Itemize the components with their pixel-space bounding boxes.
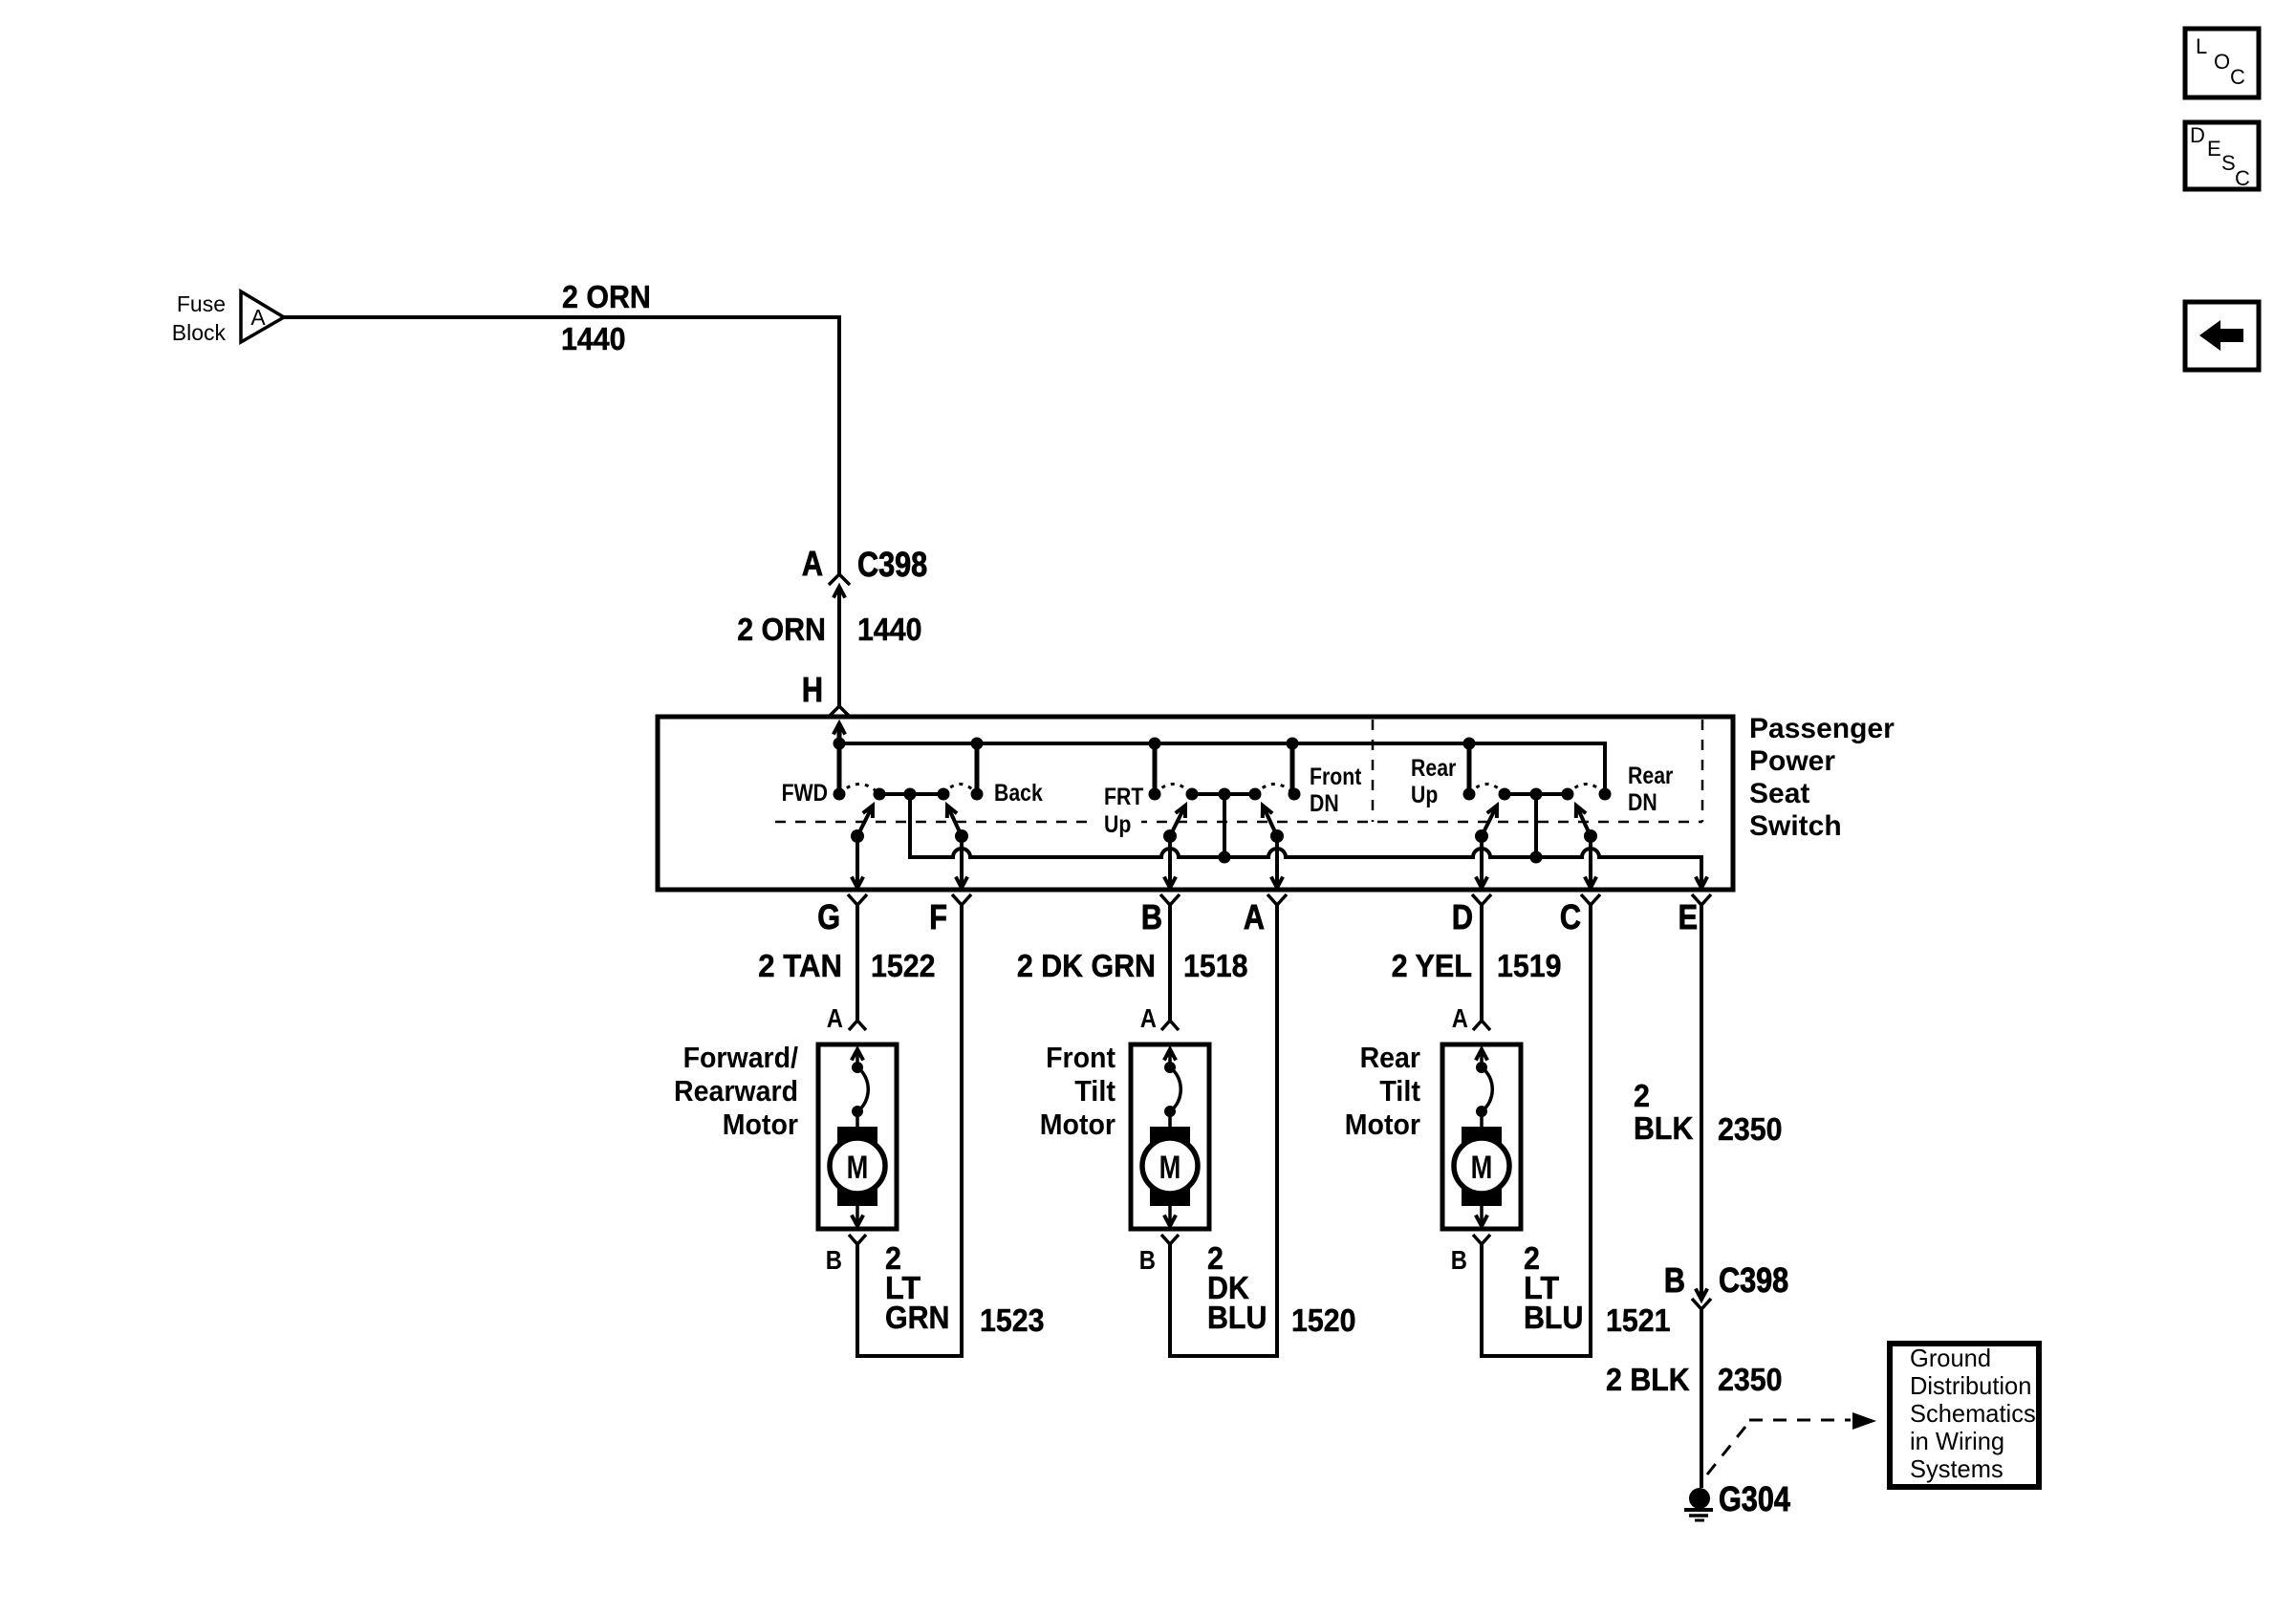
switch2 Front DN contact xyxy=(1289,788,1301,801)
svg-text:Power: Power xyxy=(1749,745,1835,777)
switch1 contacts xyxy=(874,788,886,801)
svg-text:1519: 1519 xyxy=(1497,948,1562,983)
pin A arrow inside box xyxy=(1271,877,1283,889)
wire supply bus xyxy=(839,742,1605,745)
svg-text:BLU: BLU xyxy=(1524,1300,1583,1335)
wire motor3 B down xyxy=(1480,1244,1484,1358)
svg-text:Fuse: Fuse xyxy=(177,291,226,316)
wire H to FWD contact xyxy=(837,723,842,794)
mask for Up label xyxy=(1095,811,1141,836)
pin F arrow inside box xyxy=(956,877,967,889)
switch2 contacts xyxy=(1186,788,1199,801)
svg-text:DN: DN xyxy=(1628,789,1657,816)
switch2 wiper A xyxy=(1270,829,1284,843)
back-arrow legend box xyxy=(2185,302,2259,370)
motor3 box xyxy=(1442,1044,1521,1229)
pin G arrow inside box xyxy=(852,877,863,889)
svg-text:Tilt: Tilt xyxy=(1074,1074,1116,1108)
svg-text:in Wiring: in Wiring xyxy=(1910,1427,2004,1455)
svg-text:G304: G304 xyxy=(1719,1479,1790,1518)
motor1 armature top xyxy=(837,1127,877,1146)
motor2 arrow inside top xyxy=(1164,1049,1176,1061)
motor1 M circle xyxy=(830,1138,885,1194)
motor1 arrow inside top xyxy=(852,1049,863,1061)
wire D to motor3 xyxy=(1480,905,1484,1021)
wire 2 ORN vertical to C398 xyxy=(837,315,841,574)
svg-text:BLK: BLK xyxy=(1634,1110,1694,1146)
wire 2 ORN 1440 horizontal xyxy=(284,315,841,319)
DESC legend box xyxy=(2185,122,2259,189)
motor2 wire to bottom xyxy=(1168,1206,1172,1224)
svg-text:Forward/: Forward/ xyxy=(683,1041,799,1074)
svg-text:2350: 2350 xyxy=(1718,1111,1783,1147)
dashed divider left xyxy=(1372,720,1375,822)
motor1 pin A fork xyxy=(849,1021,866,1030)
wire motor3 return U xyxy=(1480,1354,1592,1358)
motor2 box xyxy=(1131,1044,1209,1229)
svg-text:A: A xyxy=(1140,1003,1157,1033)
svg-text:B: B xyxy=(1451,1245,1467,1275)
motor2 M circle xyxy=(1142,1138,1198,1194)
wire output bus with wire hops xyxy=(910,794,1701,888)
motor1 brush dots and arc xyxy=(852,1062,863,1073)
wire motor2 return U xyxy=(1168,1354,1279,1358)
svg-text:Rear: Rear xyxy=(1360,1041,1420,1074)
svg-text:GRN: GRN xyxy=(885,1300,950,1335)
svg-text:Switch: Switch xyxy=(1749,810,1842,842)
ground G304 symbol xyxy=(1689,1488,1710,1509)
motor1 pin B fork xyxy=(849,1235,866,1244)
svg-text:DN: DN xyxy=(1310,790,1339,817)
svg-text:C398: C398 xyxy=(857,545,927,584)
svg-text:M: M xyxy=(847,1150,869,1186)
switch2 dashed arc Front DN xyxy=(1255,785,1294,795)
pin E arrow inside box xyxy=(1696,877,1707,889)
pin B fork and label xyxy=(1160,894,1180,905)
svg-text:Passenger: Passenger xyxy=(1749,713,1895,744)
motor1 armature bottom xyxy=(837,1188,877,1206)
motor1 wire to bottom xyxy=(856,1206,859,1224)
motor2 pin A fork xyxy=(1161,1021,1179,1030)
switch2 FRT Up contact xyxy=(1149,788,1161,801)
svg-text:B: B xyxy=(1141,897,1162,936)
switch3 dashed arc Rear Up xyxy=(1469,785,1505,795)
junction Front DN stub xyxy=(1287,738,1299,750)
svg-text:C: C xyxy=(1560,897,1581,936)
motor3 arrow inside top xyxy=(1476,1049,1487,1061)
svg-text:A: A xyxy=(1244,897,1265,936)
svg-text:Motor: Motor xyxy=(1345,1108,1420,1141)
svg-text:2 BLK: 2 BLK xyxy=(1606,1362,1690,1397)
motor3 pin B fork xyxy=(1473,1235,1490,1244)
svg-text:2 ORN: 2 ORN xyxy=(737,612,826,647)
motor2 pin B fork xyxy=(1161,1235,1179,1244)
wire wiper B down xyxy=(1168,836,1172,888)
svg-text:Seat: Seat xyxy=(1749,778,1809,809)
switch1 wiper G xyxy=(851,829,864,843)
switch1 dashed arc FWD xyxy=(839,785,879,795)
wire F full xyxy=(960,905,964,1358)
switch2 wiper B xyxy=(1163,829,1177,843)
motor2 wire to armature xyxy=(1168,1111,1172,1129)
wire switch1 common down xyxy=(908,794,912,857)
pin A fork and label xyxy=(1267,894,1287,905)
wire wiper C down xyxy=(1589,836,1592,888)
wire wiper G down xyxy=(856,836,859,888)
svg-text:Systems: Systems xyxy=(1910,1454,2004,1483)
motor3 M circle xyxy=(1454,1138,1509,1194)
pin F fork and label xyxy=(952,894,971,905)
svg-text:Motor: Motor xyxy=(723,1108,798,1141)
motor3 armature top xyxy=(1462,1127,1502,1146)
svg-text:A: A xyxy=(827,1003,843,1033)
switch3 contacts xyxy=(1499,788,1511,801)
switch1 FWD contact xyxy=(834,788,846,801)
motor2 armature top xyxy=(1150,1127,1190,1146)
passenger power seat switch box xyxy=(658,717,1733,890)
svg-text:1440: 1440 xyxy=(857,612,922,647)
svg-text:Up: Up xyxy=(1411,782,1438,808)
junction Back stub xyxy=(971,738,984,750)
switch1 wiper F xyxy=(955,829,968,843)
svg-text:S: S xyxy=(2221,151,2236,175)
wire switch2 common down xyxy=(1223,794,1226,857)
svg-text:B: B xyxy=(826,1245,842,1275)
svg-text:H: H xyxy=(802,670,823,709)
motor3 pin A fork xyxy=(1473,1021,1490,1030)
svg-text:E: E xyxy=(1679,897,1698,936)
wire wiper A down xyxy=(1275,836,1279,888)
svg-text:B: B xyxy=(1664,1260,1685,1300)
motor1 wire to armature xyxy=(856,1111,859,1129)
svg-text:A: A xyxy=(1452,1003,1468,1033)
motor3 wire to bottom xyxy=(1480,1206,1484,1224)
wire motor1 return U xyxy=(856,1354,964,1358)
wire E down xyxy=(1700,905,1703,1300)
svg-text:G: G xyxy=(817,897,840,936)
dashed mechanical link horizontal xyxy=(775,821,1702,824)
svg-text:C: C xyxy=(2230,65,2245,89)
svg-text:1522: 1522 xyxy=(871,948,936,983)
svg-text:Tilt: Tilt xyxy=(1379,1074,1420,1108)
dashed divider right xyxy=(1701,720,1704,822)
connector C398 pin B symbol xyxy=(1696,1289,1707,1301)
svg-text:Back: Back xyxy=(994,780,1043,807)
motor3 brush dots and arc xyxy=(1476,1062,1487,1073)
svg-text:Motor: Motor xyxy=(1040,1108,1116,1141)
connector C398 pin A symbol xyxy=(829,574,850,585)
svg-text:A: A xyxy=(802,544,823,583)
motor3 armature bottom xyxy=(1462,1188,1502,1206)
svg-text:Rearward: Rearward xyxy=(674,1074,798,1108)
svg-text:1520: 1520 xyxy=(1291,1302,1356,1338)
svg-text:M: M xyxy=(1159,1150,1181,1186)
pin D fork and label xyxy=(1472,894,1491,905)
svg-text:D: D xyxy=(1452,897,1473,936)
wire B to motor2 xyxy=(1168,905,1172,1021)
switch1 dashed arc Back xyxy=(943,785,977,795)
svg-text:Front: Front xyxy=(1310,764,1362,790)
fuse block connector A triangle xyxy=(241,291,284,342)
svg-text:Ground: Ground xyxy=(1910,1344,1991,1372)
svg-text:M: M xyxy=(1471,1150,1493,1186)
svg-text:2 YEL: 2 YEL xyxy=(1392,948,1472,983)
LOC legend box xyxy=(2185,29,2259,97)
svg-text:O: O xyxy=(2214,50,2230,74)
svg-text:1440: 1440 xyxy=(561,321,626,356)
svg-text:Rear: Rear xyxy=(1411,755,1457,782)
junction FRT Up stub xyxy=(1149,738,1161,750)
svg-text:E: E xyxy=(2207,137,2221,161)
svg-text:F: F xyxy=(929,897,947,936)
switch3 Rear Up contact xyxy=(1463,788,1476,801)
svg-text:1523: 1523 xyxy=(980,1302,1045,1338)
pin D arrow inside box xyxy=(1476,877,1487,889)
svg-text:B: B xyxy=(1139,1245,1156,1275)
motor2 armature bottom xyxy=(1150,1188,1190,1206)
switch2 dashed arc FRT xyxy=(1155,785,1192,795)
svg-text:2: 2 xyxy=(1634,1078,1650,1113)
wire C full xyxy=(1589,905,1592,1358)
pin H fork xyxy=(829,706,850,717)
svg-text:FRT: FRT xyxy=(1104,784,1143,810)
svg-text:Rear: Rear xyxy=(1628,763,1674,789)
pin C fork and label xyxy=(1581,894,1600,905)
wire A full xyxy=(1275,905,1279,1358)
motor2 brush dots and arc xyxy=(1164,1062,1176,1073)
svg-text:Schematics: Schematics xyxy=(1910,1399,2036,1428)
pin C arrow inside box xyxy=(1585,877,1596,889)
junction switch2 common xyxy=(1219,851,1231,864)
wire motor2 B down xyxy=(1168,1244,1172,1358)
svg-text:Block: Block xyxy=(172,320,227,345)
svg-text:Front: Front xyxy=(1046,1041,1116,1074)
wire G to motor1 xyxy=(856,905,859,1021)
svg-text:C: C xyxy=(2235,166,2250,190)
svg-text:2350: 2350 xyxy=(1718,1362,1783,1397)
pin H arrow inside switch xyxy=(834,723,845,735)
svg-text:1521: 1521 xyxy=(1606,1302,1671,1338)
switch3 Rear DN contact xyxy=(1599,788,1612,801)
wire wiper F down xyxy=(960,836,964,888)
wire switch3 common down xyxy=(1534,794,1538,857)
pin E fork and label xyxy=(1692,894,1711,905)
svg-text:D: D xyxy=(2190,123,2205,147)
svg-text:A: A xyxy=(250,305,266,330)
dashed ground reference wire xyxy=(1707,1422,1749,1474)
svg-text:Distribution: Distribution xyxy=(1910,1371,2031,1400)
junction H bus xyxy=(834,738,846,750)
wire wiper D down xyxy=(1480,836,1484,888)
svg-text:Up: Up xyxy=(1104,811,1131,838)
svg-text:1518: 1518 xyxy=(1183,948,1248,983)
svg-text:2 TAN: 2 TAN xyxy=(758,948,842,983)
junction switch3 common xyxy=(1530,851,1543,864)
svg-text:C398: C398 xyxy=(1719,1260,1788,1300)
svg-text:2 ORN: 2 ORN xyxy=(562,279,651,314)
svg-text:2 DK GRN: 2 DK GRN xyxy=(1017,948,1156,983)
wire motor1 B down xyxy=(856,1244,859,1358)
pin G fork and label xyxy=(848,894,867,905)
ground distribution schematics box xyxy=(1890,1344,2039,1487)
svg-text:BLU: BLU xyxy=(1207,1300,1267,1335)
junction Rear Up stub xyxy=(1463,738,1476,750)
svg-text:L: L xyxy=(2196,34,2207,58)
pin B arrow inside box xyxy=(1164,877,1176,889)
switch3 dashed arc Rear DN xyxy=(1568,785,1605,795)
motor1 box xyxy=(818,1044,897,1229)
svg-text:FWD: FWD xyxy=(782,780,828,807)
switch3 wiper D xyxy=(1475,829,1488,843)
switch1 Back contact xyxy=(971,788,984,801)
switch3 wiper C xyxy=(1584,829,1597,843)
motor3 wire to armature xyxy=(1480,1111,1484,1129)
